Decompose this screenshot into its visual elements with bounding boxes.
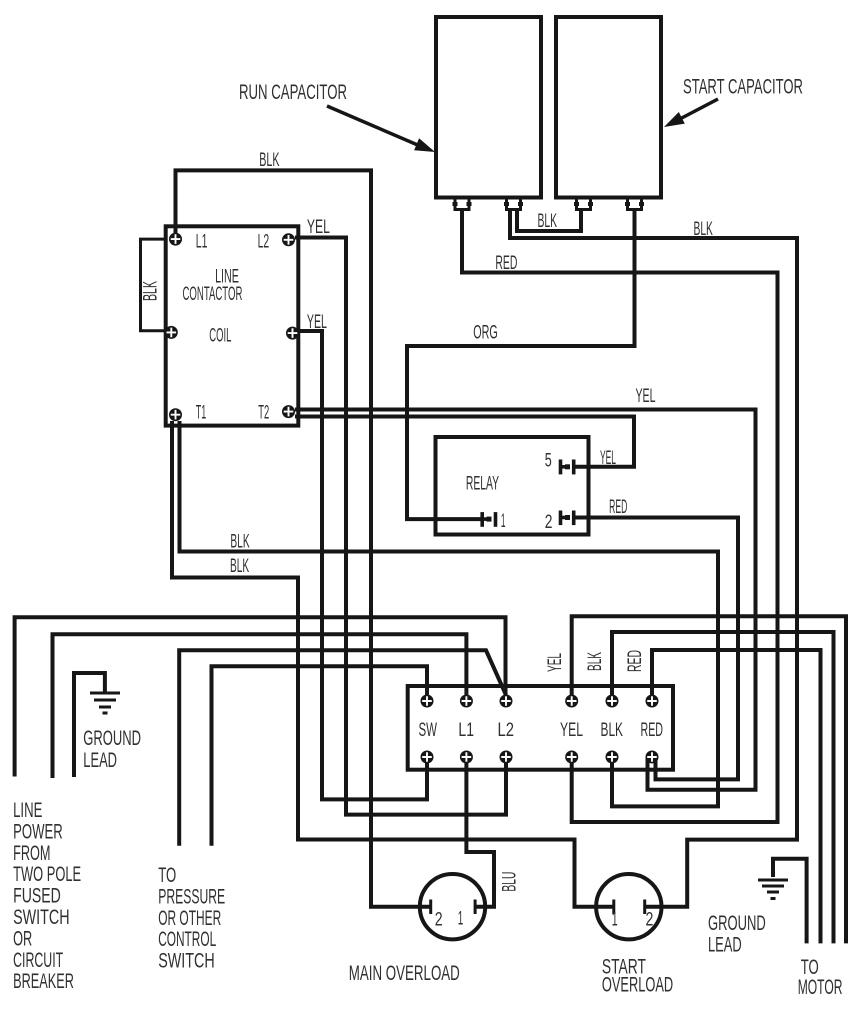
- svg-text:L1: L1: [196, 231, 208, 252]
- svg-text:SWITCH: SWITCH: [13, 905, 70, 929]
- svg-text:TWO POLE: TWO POLE: [13, 862, 81, 886]
- svg-text:GROUND: GROUND: [708, 911, 766, 935]
- svg-text:YEL: YEL: [545, 653, 566, 672]
- svg-text:SWITCH: SWITCH: [158, 949, 215, 973]
- svg-text:START CAPACITOR: START CAPACITOR: [683, 75, 803, 99]
- svg-text:YEL: YEL: [307, 312, 327, 333]
- svg-text:L2: L2: [498, 720, 515, 741]
- svg-text:BLK: BLK: [230, 532, 249, 553]
- svg-text:BLK: BLK: [694, 219, 714, 240]
- svg-text:BLU: BLU: [500, 872, 521, 892]
- svg-text:RELAY: RELAY: [466, 474, 499, 495]
- svg-text:5: 5: [545, 451, 552, 472]
- svg-text:1: 1: [612, 909, 618, 930]
- svg-text:1: 1: [458, 909, 464, 930]
- svg-text:OR: OR: [13, 926, 32, 950]
- svg-text:PRESSURE: PRESSURE: [158, 884, 225, 908]
- svg-text:COIL: COIL: [209, 326, 231, 347]
- svg-text:BLK: BLK: [538, 211, 558, 232]
- svg-text:POWER: POWER: [13, 819, 63, 843]
- svg-text:RUN CAPACITOR: RUN CAPACITOR: [239, 80, 347, 104]
- svg-text:2: 2: [545, 512, 553, 533]
- svg-text:ORG: ORG: [473, 323, 498, 344]
- svg-text:BLK: BLK: [230, 556, 249, 577]
- svg-text:YEL: YEL: [636, 386, 656, 407]
- svg-text:L2: L2: [258, 231, 270, 252]
- svg-text:RED: RED: [641, 720, 664, 741]
- svg-text:MAIN OVERLOAD: MAIN OVERLOAD: [349, 961, 460, 985]
- svg-text:FROM: FROM: [13, 841, 50, 865]
- svg-text:2: 2: [646, 909, 654, 930]
- svg-text:BLK: BLK: [601, 720, 624, 741]
- svg-text:LINE: LINE: [13, 798, 42, 822]
- svg-text:CONTROL: CONTROL: [158, 927, 216, 951]
- svg-text:1: 1: [501, 511, 506, 532]
- svg-text:BLK: BLK: [585, 652, 606, 671]
- svg-text:YEL: YEL: [560, 720, 583, 741]
- svg-text:SW: SW: [419, 720, 438, 741]
- svg-text:BLK: BLK: [141, 281, 162, 301]
- svg-text:RED: RED: [609, 497, 627, 518]
- svg-text:OVERLOAD: OVERLOAD: [602, 973, 673, 997]
- svg-text:LEAD: LEAD: [83, 748, 117, 772]
- svg-text:YEL: YEL: [307, 217, 330, 238]
- svg-text:RED: RED: [495, 253, 517, 274]
- svg-text:LEAD: LEAD: [708, 933, 742, 957]
- svg-text:TO: TO: [158, 863, 176, 887]
- svg-text:CIRCUIT: CIRCUIT: [13, 948, 63, 972]
- svg-text:BREAKER: BREAKER: [13, 969, 74, 993]
- svg-text:FUSED: FUSED: [13, 884, 61, 908]
- svg-text:RED: RED: [625, 650, 646, 672]
- svg-text:2: 2: [435, 909, 443, 930]
- svg-text:YEL: YEL: [600, 448, 616, 469]
- svg-text:GROUND: GROUND: [83, 726, 141, 750]
- svg-text:BLK: BLK: [259, 150, 279, 171]
- svg-text:T1: T1: [196, 403, 207, 424]
- svg-text:L1: L1: [458, 720, 474, 741]
- svg-text:OR OTHER: OR OTHER: [158, 906, 221, 930]
- svg-text:CONTACTOR: CONTACTOR: [183, 284, 243, 305]
- svg-text:T2: T2: [258, 403, 269, 424]
- svg-text:MOTOR: MOTOR: [798, 975, 843, 999]
